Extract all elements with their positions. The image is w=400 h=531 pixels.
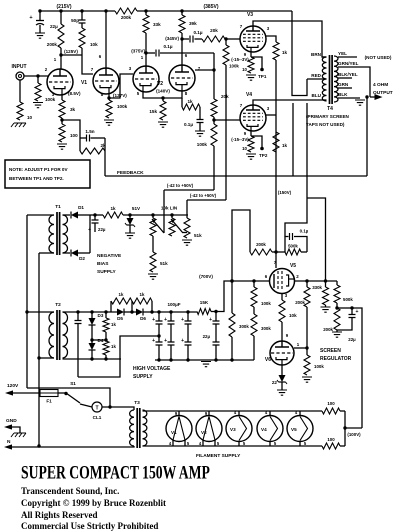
pentode V5 xyxy=(265,260,300,298)
capacitor 0.1u screen div xyxy=(285,229,309,253)
wire 385V rail xyxy=(137,10,292,12)
svg-text:39k: 39k xyxy=(189,21,197,26)
resistor 100k V4 grid leak xyxy=(197,120,217,190)
label 10k LIN xyxy=(161,206,178,211)
svg-text:V2: V2 xyxy=(157,81,163,87)
svg-text:All Rights Reserved: All Rights Reserved xyxy=(21,510,98,520)
transformer T4 core xyxy=(330,55,333,104)
svg-text:10: 10 xyxy=(242,67,247,72)
svg-text:1k: 1k xyxy=(111,322,116,327)
svg-text:CL1: CL1 xyxy=(93,415,102,420)
wire heater elevation xyxy=(350,306,362,428)
svg-text:0.1µ: 0.1µ xyxy=(193,30,202,35)
label 100uF xyxy=(167,302,180,307)
resistor 100k V3 grid leak xyxy=(223,39,239,200)
wire heater join xyxy=(343,411,362,446)
resistor 1k doubler h2 xyxy=(132,292,152,312)
svg-text:+: + xyxy=(152,317,155,323)
wire mains vertical B xyxy=(37,253,40,448)
transformer T2 secondary xyxy=(63,312,68,358)
svg-text:100: 100 xyxy=(70,133,78,138)
svg-text:(375V): (375V) xyxy=(131,49,145,54)
svg-text:+: + xyxy=(181,317,184,323)
switch S1 xyxy=(58,381,80,403)
svg-text:D3: D3 xyxy=(98,313,104,318)
svg-text:+: + xyxy=(181,338,184,344)
label negative bias supply xyxy=(97,253,122,275)
svg-text:T1: T1 xyxy=(55,204,61,210)
svg-text:100k: 100k xyxy=(261,301,271,306)
svg-text:GRN/YEL: GRN/YEL xyxy=(338,61,359,66)
resistor 2k feedback xyxy=(80,138,106,176)
diode D2 xyxy=(63,250,91,262)
resistor 1k doubler v1 xyxy=(92,312,116,342)
heater V2 xyxy=(196,411,222,446)
svg-text:SUPER COMPACT 150W AMP: SUPER COMPACT 150W AMP xyxy=(21,463,210,483)
triode V1b xyxy=(81,54,119,97)
wire feedback line xyxy=(105,95,369,176)
svg-text:300k: 300k xyxy=(261,326,271,331)
svg-text:22µ: 22µ xyxy=(98,227,106,232)
svg-text:1k: 1k xyxy=(119,292,124,297)
wire V5 output rail xyxy=(295,279,338,282)
svg-text:TAPS NOT USED): TAPS NOT USED) xyxy=(306,122,345,127)
resistor 10 input shield xyxy=(11,80,33,127)
svg-text:GND: GND xyxy=(6,418,17,424)
svg-text:10: 10 xyxy=(27,115,33,120)
svg-text:V6: V6 xyxy=(265,357,271,363)
svg-text:(215V): (215V) xyxy=(56,4,71,10)
wire mains vertical A xyxy=(26,215,28,388)
resistor 15K HV xyxy=(197,300,211,315)
label pin 1 V1a xyxy=(54,57,57,62)
svg-text:+: + xyxy=(356,309,359,315)
svg-text:4 OHM: 4 OHM xyxy=(373,82,388,88)
subtitle company xyxy=(21,486,119,496)
svg-text:(700V): (700V) xyxy=(199,274,213,279)
transformer T1 primary xyxy=(27,215,54,253)
label T4 xyxy=(327,106,333,112)
resistor 1k doubler v2 xyxy=(103,341,116,359)
capacitor 0.1u V2a coupling xyxy=(146,44,214,57)
resistor 51k bias 2 xyxy=(148,236,168,279)
svg-text:100k: 100k xyxy=(314,364,324,369)
svg-text:50p: 50p xyxy=(71,18,79,23)
wire feedback to cathode xyxy=(62,120,80,151)
svg-text:BLK/YEL: BLK/YEL xyxy=(338,72,358,77)
svg-text:BIAS: BIAS xyxy=(97,261,109,267)
svg-text:200k: 200k xyxy=(256,242,266,247)
heater V3 xyxy=(226,410,252,446)
triode V2a xyxy=(129,55,159,96)
svg-text:V4: V4 xyxy=(246,92,252,98)
svg-text:51V: 51V xyxy=(132,206,141,211)
resistor 100k grid leak xyxy=(33,74,56,107)
svg-text:V2: V2 xyxy=(201,430,207,435)
wire V3 plate to T4 BRN xyxy=(253,21,326,57)
resistor 200k reg out xyxy=(295,281,310,348)
svg-text:V3: V3 xyxy=(247,12,253,18)
svg-text:20k: 20k xyxy=(210,28,218,33)
testpoint TP2 xyxy=(259,153,268,158)
heater V5 xyxy=(287,410,313,446)
transformer T4 primary xyxy=(322,57,327,101)
potentiometer P2 xyxy=(169,213,187,236)
svg-text:(385V): (385V) xyxy=(203,4,218,10)
svg-text:15K: 15K xyxy=(200,300,209,305)
svg-text:22µ: 22µ xyxy=(203,334,211,339)
svg-text:V3: V3 xyxy=(230,427,236,432)
svg-text:10k: 10k xyxy=(90,42,98,47)
wire V2b grid xyxy=(195,68,216,71)
resistor 10 V4 cathode xyxy=(242,136,256,159)
svg-text:200k: 200k xyxy=(47,42,58,47)
svg-text:1k: 1k xyxy=(187,99,193,104)
svg-text:22µ: 22µ xyxy=(50,24,58,29)
resistor 300k screen reg in xyxy=(251,307,271,360)
svg-text:T: T xyxy=(95,406,98,412)
label T4 RED xyxy=(307,73,327,79)
heater V1 xyxy=(166,411,192,446)
resistor 100k screen reg in xyxy=(251,281,271,307)
resistor 1k V4 screen xyxy=(265,115,288,152)
svg-text:100k: 100k xyxy=(229,64,239,69)
resistor 100k V1b cathode xyxy=(104,98,128,125)
svg-text:BLU: BLU xyxy=(312,93,322,98)
svg-text:+: + xyxy=(152,338,155,344)
svg-text:REGULATOR: REGULATOR xyxy=(320,356,352,362)
diode D5 xyxy=(117,309,136,322)
svg-text:300k: 300k xyxy=(239,324,249,329)
transformer T1 core xyxy=(55,204,61,255)
svg-text:(-15--3V): (-15--3V) xyxy=(231,137,249,142)
wire input to grid xyxy=(24,67,49,76)
svg-text:(NOT USED): (NOT USED) xyxy=(365,55,392,60)
diode D3 xyxy=(89,312,104,342)
wire V5 grid xyxy=(275,252,277,268)
wire BLK/YEL tap xyxy=(338,72,358,78)
svg-text:D6: D6 xyxy=(140,316,146,321)
svg-text:SUPPLY: SUPPLY xyxy=(97,269,117,275)
svg-text:(PRIMARY SCREEN: (PRIMARY SCREEN xyxy=(306,114,350,119)
svg-text:20k: 20k xyxy=(221,94,229,99)
resistor 100 V1a cathode xyxy=(57,120,78,149)
svg-text:(150V): (150V) xyxy=(278,190,292,195)
svg-text:S1: S1 xyxy=(70,381,76,386)
svg-text:200k: 200k xyxy=(295,300,305,305)
capacitor doubler xyxy=(75,312,82,377)
svg-text:51k: 51k xyxy=(160,261,168,266)
svg-text:3k: 3k xyxy=(70,107,76,112)
wire YEL tap xyxy=(338,51,392,60)
pentode V4 xyxy=(240,92,270,136)
svg-text:100µF: 100µF xyxy=(167,302,180,307)
resistor 39k V2b plate load xyxy=(179,9,197,65)
svg-text:500k: 500k xyxy=(288,244,298,249)
svg-text:NOTE: ADJUST P1 FOR 0V: NOTE: ADJUST P1 FOR 0V xyxy=(9,167,68,172)
label FEEDBACK xyxy=(117,170,144,176)
svg-text:FEEDBACK: FEEDBACK xyxy=(117,170,144,176)
svg-text:51k: 51k xyxy=(194,233,202,238)
resistor 3k V1a cathode xyxy=(59,95,76,122)
wire neutral xyxy=(4,444,134,449)
resistor 500k screen div xyxy=(285,244,307,256)
zener 51V xyxy=(125,206,141,238)
subtitle rights xyxy=(21,510,98,520)
capacitor 100uF pair 2 xyxy=(164,312,174,360)
wire V2 cathode bus xyxy=(143,91,182,100)
svg-text:YEL: YEL xyxy=(338,51,347,56)
heater V4 xyxy=(257,410,283,446)
svg-text:33k: 33k xyxy=(153,22,161,27)
wire T4 screen tap 2 xyxy=(285,103,326,281)
triode V2b xyxy=(156,53,201,96)
wire T4 screen tap 1 xyxy=(292,103,294,176)
svg-text:T3: T3 xyxy=(134,400,140,406)
svg-text:Copyright © 1999 by Bruce Roze: Copyright © 1999 by Bruce Rozenblit xyxy=(21,498,166,508)
svg-text:200k: 200k xyxy=(323,327,333,332)
resistor 100k V6 grid xyxy=(302,348,324,382)
svg-text:(345V): (345V) xyxy=(165,36,179,41)
wire bias feed 1 xyxy=(164,183,214,190)
svg-text:FILAMENT SUPPLY: FILAMENT SUPPLY xyxy=(196,453,241,459)
svg-text:Commercial Use Strictly Prohib: Commercial Use Strictly Prohibited xyxy=(21,521,158,531)
svg-text:BRN: BRN xyxy=(311,52,322,57)
triode V6 xyxy=(265,333,300,365)
wire T2 sec bottom xyxy=(63,357,122,360)
capacitor 50p xyxy=(71,9,85,23)
capacitor 100uF pair 1 xyxy=(152,312,162,360)
svg-text:(140V): (140V) xyxy=(156,89,170,94)
resistor 330k reg out xyxy=(312,281,330,312)
label T4 note xyxy=(306,114,350,127)
svg-text:+: + xyxy=(164,317,167,323)
note box xyxy=(5,160,90,188)
svg-text:RED: RED xyxy=(311,73,321,78)
capacitor 1.5n feedback xyxy=(80,129,105,142)
wire T2 sec top xyxy=(63,310,118,313)
resistor 10 V3 cathode xyxy=(242,57,256,80)
svg-text:(100V): (100V) xyxy=(347,432,361,437)
input jack J1 xyxy=(12,64,27,80)
wire doubler bottom U xyxy=(78,334,161,377)
diode D4 xyxy=(89,338,104,359)
resistor 300k bleeder xyxy=(229,281,249,360)
capacitor 22u reg xyxy=(337,308,359,342)
resistor 100 heater bottom xyxy=(322,437,345,449)
wire B+ drop to T4 RED xyxy=(292,11,307,96)
wire heater rail top xyxy=(143,410,323,412)
transformer T4 secondary xyxy=(334,56,338,102)
svg-text:TP1: TP1 xyxy=(258,74,267,79)
transformer T3 primary xyxy=(130,410,134,446)
ground HV xyxy=(201,362,211,367)
transformer T3 secondary xyxy=(143,410,147,446)
wire V3 cathode xyxy=(251,52,264,71)
svg-text:100k: 100k xyxy=(45,97,56,102)
svg-text:(-15--3V): (-15--3V) xyxy=(231,57,249,62)
capacitor 22u bias filter xyxy=(88,213,106,233)
svg-text:V1: V1 xyxy=(81,80,87,86)
wire 215V rail xyxy=(40,10,115,12)
svg-text:T2: T2 xyxy=(55,302,61,308)
svg-text:+: + xyxy=(209,317,212,323)
resistor 200k horizontal rail xyxy=(115,8,137,20)
wire heater rail bottom xyxy=(143,445,323,447)
resistor 200k V1a plate load xyxy=(47,9,64,55)
label filament supply xyxy=(196,453,241,459)
svg-text:Transcendent Sound, Inc.: Transcendent Sound, Inc. xyxy=(21,486,119,496)
svg-text:(-42 to +50V): (-42 to +50V) xyxy=(190,193,217,198)
capacitor 100uF pair 3 xyxy=(181,312,191,360)
svg-text:10k LIN: 10k LIN xyxy=(161,206,178,211)
resistor 10k V5 cathode xyxy=(279,294,297,341)
svg-text:10: 10 xyxy=(242,146,247,151)
label V3 bias xyxy=(231,57,249,62)
diode D1 xyxy=(63,205,91,219)
wire plate node 125V xyxy=(59,49,93,74)
label high voltage supply xyxy=(133,366,171,380)
svg-text:D5: D5 xyxy=(117,316,123,321)
svg-text:SUPPLY: SUPPLY xyxy=(133,374,153,380)
chassis ground mains xyxy=(4,424,26,437)
svg-text:GRN: GRN xyxy=(338,82,349,87)
svg-text:0.1µ: 0.1µ xyxy=(163,44,172,49)
output arrow 4 ohm xyxy=(370,82,393,100)
wire HV ground rail xyxy=(155,358,254,361)
capacitor 22u input supply xyxy=(29,9,58,38)
pentode V3 xyxy=(240,12,270,57)
resistor 1k doubler h1 xyxy=(111,292,132,312)
transformer T1 secondary xyxy=(63,215,68,253)
svg-text:V5: V5 xyxy=(291,427,297,432)
svg-text:1k: 1k xyxy=(110,206,116,211)
svg-text:(-42 to +50V): (-42 to +50V) xyxy=(167,183,194,188)
svg-text:+: + xyxy=(29,15,32,21)
label N xyxy=(7,439,11,445)
testpoint TP1 xyxy=(258,74,267,79)
label GND xyxy=(6,418,17,424)
svg-text:330k: 330k xyxy=(312,285,322,290)
svg-text:100k: 100k xyxy=(197,142,208,147)
svg-text:200k: 200k xyxy=(121,15,132,20)
svg-text:TP2: TP2 xyxy=(259,153,268,158)
svg-text:V5: V5 xyxy=(290,263,296,269)
svg-text:T4: T4 xyxy=(327,106,333,112)
arrow 120V xyxy=(5,390,40,395)
transformer T2 primary xyxy=(25,310,54,359)
resistor 51k bias 1 xyxy=(182,200,202,245)
potentiometer P1 xyxy=(150,190,164,236)
svg-text:10k: 10k xyxy=(289,313,297,318)
svg-text:0.1µ: 0.1µ xyxy=(300,229,309,234)
label screen regulator xyxy=(320,348,352,362)
svg-text:INPUT: INPUT xyxy=(12,64,27,70)
svg-text:SCREEN: SCREEN xyxy=(320,348,341,354)
resistor 1k bias xyxy=(103,206,188,218)
inrush limiter CL1 xyxy=(80,402,102,420)
resistor 200k reg div xyxy=(323,308,342,337)
resistor 1k V2 cathode ref xyxy=(182,98,200,110)
label T4 BLU xyxy=(312,93,327,100)
transformer T2 core xyxy=(55,302,61,360)
diode D6 xyxy=(136,309,197,322)
resistor 100 heater top xyxy=(322,401,345,414)
svg-text:1k: 1k xyxy=(111,344,116,349)
triode V1a xyxy=(47,69,81,97)
wire V4 plate to T4 BLU xyxy=(253,100,323,105)
svg-text:1k: 1k xyxy=(282,50,288,55)
svg-text:D2: D2 xyxy=(79,256,85,261)
node 385V rail label xyxy=(203,4,218,10)
resistor 10k xyxy=(79,23,98,55)
svg-text:0.1µ: 0.1µ xyxy=(184,122,193,127)
svg-text:1.5n: 1.5n xyxy=(85,129,94,134)
svg-text:(127V): (127V) xyxy=(113,93,127,98)
zener 22V V6 cathode xyxy=(272,365,287,395)
svg-text:100: 100 xyxy=(327,437,335,442)
resistor 20k V3 grid xyxy=(202,28,240,42)
svg-text:V4: V4 xyxy=(261,427,267,432)
title xyxy=(21,463,210,483)
wire screen feed 150V xyxy=(276,60,292,252)
fuse F1 xyxy=(40,390,58,404)
svg-text:100: 100 xyxy=(327,401,335,406)
resistor 500k reg div xyxy=(334,281,353,310)
resistor 33k V2a plate load xyxy=(143,9,161,66)
svg-text:500k: 500k xyxy=(343,297,353,302)
svg-text:(125V): (125V) xyxy=(64,49,78,54)
svg-text:N: N xyxy=(7,439,11,445)
wire V1b cathode node xyxy=(107,74,133,100)
wire CL1 to T3 xyxy=(102,405,134,410)
svg-text:+: + xyxy=(88,227,91,233)
capacitor 0.1u V3 coupling xyxy=(182,30,203,43)
svg-text:F1: F1 xyxy=(46,399,52,404)
svg-text:HIGH VOLTAGE: HIGH VOLTAGE xyxy=(133,366,171,372)
svg-text:1k: 1k xyxy=(140,292,145,297)
wire 700V rail xyxy=(199,274,270,313)
wire bias feed 2 xyxy=(187,193,226,200)
svg-text:100k: 100k xyxy=(117,104,128,109)
svg-text:BLK: BLK xyxy=(338,92,348,97)
svg-text:(8.5V): (8.5V) xyxy=(68,91,81,96)
wire V4 grid xyxy=(214,119,240,121)
svg-text:120V: 120V xyxy=(7,383,19,389)
wire BLK tap xyxy=(338,92,365,105)
svg-text:NEGATIVE: NEGATIVE xyxy=(97,253,122,259)
svg-text:D1: D1 xyxy=(78,205,84,210)
resistor 200k screen div xyxy=(250,242,285,255)
wire GRN tap xyxy=(338,82,352,88)
svg-text:15k: 15k xyxy=(149,109,157,114)
node 375V label xyxy=(131,49,147,55)
svg-text:V1: V1 xyxy=(171,430,177,435)
svg-text:22µ: 22µ xyxy=(348,337,356,342)
wire GRN/YEL tap xyxy=(338,61,370,97)
wire V1b plate to 215V rail xyxy=(104,9,107,68)
transformer T3 core xyxy=(134,400,140,448)
wire bias rectifier xyxy=(89,215,91,253)
wire switched hot riser xyxy=(27,388,110,407)
svg-text:1k: 1k xyxy=(282,143,288,148)
subtitle commercial xyxy=(21,521,158,531)
resistor 20k V4 grid xyxy=(211,53,229,122)
resistor 1k V3 screen xyxy=(265,36,288,60)
capacitor 0.1u cathode bypass xyxy=(184,107,205,136)
label T4 BRN xyxy=(311,52,322,57)
svg-text:OUTPUT: OUTPUT xyxy=(373,90,393,96)
